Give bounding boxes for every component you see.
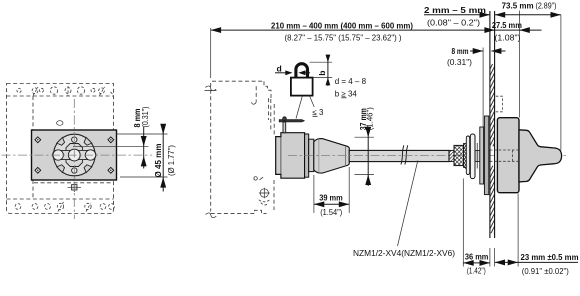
b dimension at shackle: [310, 62, 333, 77]
collar: [309, 139, 314, 171]
corner screws (diamonds): [35, 137, 114, 173]
svg-text:(1.54"): (1.54"): [320, 208, 342, 217]
small top/bottom circles: [72, 137, 77, 142]
svg-text:NZM1/2-XV4(NZM1/2-XV6): NZM1/2-XV4(NZM1/2-XV6): [353, 249, 455, 258]
svg-text:(8.27" – 15.75" (15.75" – 23.6: (8.27" – 15.75" (15.75" – 23.62") ): [285, 34, 402, 43]
lever knob: [283, 117, 287, 121]
svg-text:27.5 mm: 27.5 mm: [492, 20, 522, 30]
svg-text:2 mm – 5 mm: 2 mm – 5 mm: [424, 5, 486, 15]
svg-text:(0.08" – 0.2"): (0.08" – 0.2"): [427, 18, 480, 27]
svg-text:(Ø 1.77"): (Ø 1.77"): [167, 145, 176, 176]
center lines left view: [2, 154, 153, 156]
svg-text:(0.31"): (0.31"): [141, 106, 150, 127]
drive block on breaker: [276, 133, 305, 179]
mounting plate: [32, 130, 117, 180]
svg-text:(1.46"): (1.46"): [366, 107, 375, 130]
svg-text:(0.31"): (0.31"): [447, 58, 472, 67]
door panel lines: [490, 11, 495, 238]
vertical octagon insert: [66, 144, 83, 167]
svg-text:23 mm ±0.5 mm: 23 mm ±0.5 mm: [521, 252, 579, 262]
adapter plate: [305, 134, 309, 177]
dimension Ø45 mm: [162, 124, 164, 192]
spacer plate 1: [484, 116, 488, 195]
lever post: [283, 122, 286, 133]
svg-text:39 mm: 39 mm: [319, 192, 343, 202]
leader lines to dimensions: [117, 133, 168, 135]
tab plate: [466, 136, 469, 175]
hatched coupling block: [454, 145, 464, 165]
breaker outline dashed (front view): [7, 84, 114, 214]
dim 2-5 mm: [424, 14, 490, 16]
shaft break marks: [401, 145, 408, 164]
terminal band bottom line: [7, 198, 114, 200]
svg-text:d = 4 – 8: d = 4 – 8: [335, 77, 367, 86]
dim 73.5 mm: [495, 14, 561, 16]
cone coupling: [314, 139, 350, 174]
door hatch upper: [490, 64, 495, 146]
shaft stem to handle: [475, 150, 490, 161]
lever bar: [279, 120, 304, 122]
leader NZM shaft: [398, 161, 418, 247]
svg-text:≤ 3: ≤ 3: [312, 108, 324, 117]
dim 36 mm: [462, 179, 464, 267]
ext line 560.9 (handle tip): [560, 15, 562, 151]
horizontal stadium slot: [53, 150, 97, 159]
screw detail bottom front: [260, 189, 268, 197]
spacer plate 2: [480, 127, 484, 184]
dimension 37 mm: [355, 137, 375, 174]
center line middle view: [288, 154, 567, 156]
svg-text:(1.42"): (1.42"): [467, 266, 486, 275]
spring washer: [464, 143, 467, 167]
dim 23 mm: [517, 194, 519, 267]
terminal band top line: [7, 95, 114, 97]
padlock: [296, 64, 308, 78]
svg-text:210 mm – 400 mm (400 mm – 600: 210 mm – 400 mm (400 mm – 600 mm): [271, 20, 413, 30]
small ellipse detail above plate: [57, 121, 63, 126]
svg-text:(0.91" ±0.02"): (0.91" ±0.02"): [522, 267, 569, 276]
ext line 519.4 (handle front): [518, 11, 520, 118]
svg-text:b: b: [317, 71, 327, 76]
dimension 39 mm: [314, 167, 349, 213]
side circles and center circle: [53, 150, 63, 160]
svg-text:Ø 45 mm: Ø 45 mm: [153, 143, 163, 177]
svg-text:(2.89"): (2.89"): [536, 2, 557, 11]
dim 8 mm (door): [482, 48, 484, 128]
svg-text:36 mm: 36 mm: [465, 252, 489, 262]
handle base body: [497, 118, 519, 193]
terminal circles bottom row: [15, 202, 114, 212]
mounting flange: [470, 134, 475, 179]
terminal circles top row: [17, 86, 114, 96]
svg-text:d: d: [277, 63, 282, 73]
svg-text:(1.08"): (1.08"): [495, 34, 521, 43]
breaker outline dashed (side view): [210, 83, 212, 212]
door hatch lower: [490, 166, 495, 234]
dimension 8 mm (left view): [143, 127, 145, 169]
coupling circle Ø45: [54, 134, 96, 176]
hidden recess dashed: [496, 96, 503, 112]
hidden edge left of plate: [33, 96, 113, 199]
svg-text:b ≥ 34: b ≥ 34: [335, 90, 358, 99]
handle grip: [519, 130, 562, 182]
corner tabs on circle: [57, 137, 92, 172]
svg-text:8 mm: 8 mm: [452, 46, 469, 56]
hatched shaft end: [449, 150, 454, 161]
screw symbol below plate: [68, 183, 82, 192]
svg-text:73.5 mm: 73.5 mm: [502, 1, 534, 11]
hidden shaft dashed inside handle: [490, 150, 520, 161]
210mm extension line with break marks: [210, 28, 212, 78]
extension shaft NZM1/2-XV4: [349, 150, 449, 161]
dim line 210-400 + 27.5: [211, 29, 542, 31]
leader lines from padlock: [296, 95, 314, 118]
